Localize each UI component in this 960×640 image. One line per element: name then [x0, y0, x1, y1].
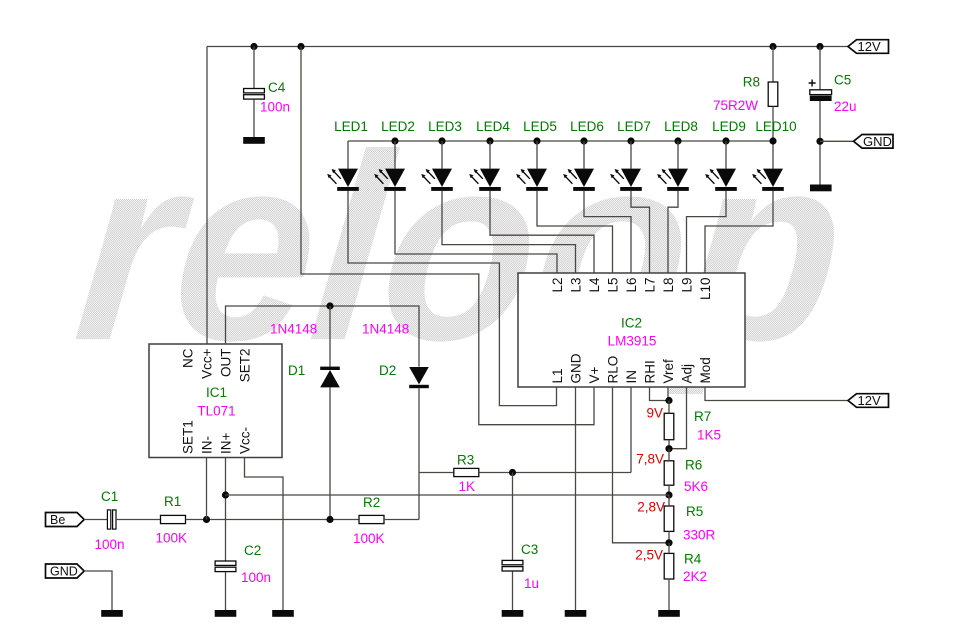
- wire IC2 Mod pin to 12V flag: [705, 387, 848, 401]
- wire IC2 RHI pin to 9V node: [650, 387, 670, 401]
- svg-text:L9: L9: [680, 278, 695, 293]
- node IN- / R1 / R2: [203, 516, 210, 523]
- node D1 anode on IN- net: [326, 516, 333, 523]
- svg-text:GND: GND: [569, 353, 584, 383]
- svg-text:L4: L4: [587, 277, 602, 293]
- svg-text:R5: R5: [686, 504, 703, 519]
- svg-text:IN: IN: [624, 370, 639, 384]
- svg-text:LED10: LED10: [755, 119, 796, 134]
- wire LED7 cathode to IC2 pin L7: [631, 191, 650, 273]
- wire IC2 Adj pin to 7.8V node: [669, 387, 687, 449]
- wire IC2 Vref pin to 9V node: [667, 387, 669, 401]
- wire IC1 Vcc- pin to ground: [245, 458, 284, 611]
- wire R6 to 2.8V node: [668, 485, 670, 495]
- wire GND net to GND flag: [820, 140, 854, 142]
- wire IC2 GND pin to ground: [575, 387, 577, 610]
- wire R1 to R2 (IN- net): [186, 519, 360, 521]
- LED LED9: [705, 169, 737, 191]
- svg-text:100K: 100K: [156, 531, 188, 546]
- wire IC2 RLO pin to 2.5V node: [613, 387, 670, 543]
- svg-text:LM3915: LM3915: [608, 334, 657, 349]
- wire LED anode rail: [348, 140, 773, 142]
- wire 9V node to R7: [668, 401, 670, 414]
- svg-text:R1: R1: [164, 494, 181, 509]
- resistor R5: [664, 506, 674, 531]
- svg-text:7,8V: 7,8V: [636, 452, 664, 467]
- node C5 / GND net: [816, 138, 823, 145]
- svg-text:D1: D1: [288, 363, 305, 378]
- wire anode rail to LED9: [725, 141, 727, 169]
- node IN+ / 2.8V link: [222, 491, 229, 498]
- resistor R1: [161, 515, 186, 523]
- flag GND input: [46, 564, 85, 579]
- svg-text:5K6: 5K6: [684, 479, 708, 494]
- wire IC2 V+ pin to 12V rail: [301, 47, 594, 425]
- svg-text:R7: R7: [694, 409, 711, 424]
- svg-text:LED9: LED9: [712, 119, 746, 134]
- LED LED5: [516, 169, 548, 191]
- ground input GND: [101, 610, 123, 617]
- svg-text:IN-: IN-: [200, 436, 215, 454]
- wire LED10 cathode to IC2 pin L10: [705, 191, 773, 273]
- wire C4 to ground: [253, 100, 255, 138]
- wire GND flag to ground: [84, 571, 112, 610]
- svg-text:LED4: LED4: [476, 119, 510, 134]
- wire IN- pin down to node: [206, 458, 208, 520]
- wire anode rail to LED10: [772, 141, 774, 169]
- wire 12V rail to C4: [253, 47, 255, 89]
- node C5 / 12V rail: [816, 43, 823, 50]
- svg-text:2,8V: 2,8V: [637, 500, 665, 515]
- node LED9 anode: [722, 137, 729, 144]
- diode D1 1N4148: [320, 367, 340, 388]
- node LED10 / R8: [769, 137, 776, 144]
- wire IC1 OUT to D1/D2 cathodes: [226, 306, 420, 367]
- svg-text:1K: 1K: [459, 479, 476, 494]
- wire LED8 cathode to IC2 pin L8: [668, 191, 678, 273]
- wire OUT node down to D1: [329, 306, 331, 367]
- wire R8 to LED rail: [772, 106, 774, 141]
- node LED3 anode: [438, 137, 445, 144]
- resistor R4: [664, 553, 674, 579]
- svg-text:C1: C1: [101, 489, 118, 504]
- wire C3 to ground: [512, 571, 514, 610]
- svg-text:L6: L6: [624, 278, 639, 293]
- svg-text:L3: L3: [569, 278, 584, 293]
- svg-text:L10: L10: [698, 278, 713, 301]
- LED LED2: [374, 169, 406, 191]
- svg-text:SET2: SET2: [238, 349, 253, 383]
- resistor R2: [359, 515, 384, 523]
- svg-text:OUT: OUT: [219, 349, 234, 378]
- node LED2 anode: [391, 137, 398, 144]
- ground Vcc-: [272, 610, 294, 617]
- svg-text:R3: R3: [457, 453, 474, 468]
- diode D2 1N4148: [409, 367, 429, 388]
- wire 7.8V node to R6: [668, 449, 670, 461]
- svg-text:100n: 100n: [95, 537, 125, 552]
- op-amp/IC U2 box LM3915: [518, 273, 745, 387]
- wire anode rail to LED7: [630, 141, 632, 169]
- svg-text:Mod: Mod: [698, 357, 713, 383]
- wire Be flag to C1: [84, 519, 107, 521]
- svg-text:9V: 9V: [646, 406, 663, 421]
- wire C2 to ground: [225, 572, 227, 610]
- LED LED8: [657, 169, 689, 191]
- node 2.5V (R5/R4/RLO): [665, 539, 672, 546]
- wire R3 net down to R2: [418, 473, 420, 520]
- ground C2: [215, 610, 237, 617]
- flag 12V top: [848, 39, 889, 54]
- op-amp IC1 box TL071: [149, 344, 282, 458]
- wire R3 to IC2 IN pin: [479, 472, 631, 474]
- svg-text:RLO: RLO: [606, 356, 621, 384]
- wire C1 to R1: [116, 519, 161, 521]
- wire D1 anode to IN- net: [329, 387, 331, 519]
- wire anode rail to LED6: [583, 141, 585, 169]
- node R8 / 12V rail: [769, 43, 776, 50]
- svg-text:L7: L7: [643, 278, 658, 293]
- svg-text:R4: R4: [684, 552, 702, 567]
- node C4 / 12V rail: [250, 43, 257, 50]
- ground IC2 GND: [565, 610, 587, 617]
- svg-text:1N4148: 1N4148: [270, 322, 317, 337]
- svg-text:1N4148: 1N4148: [362, 322, 409, 337]
- node 9V (RHI/Vref/R7): [665, 397, 672, 404]
- LED LED1: [327, 169, 359, 191]
- svg-text:LED7: LED7: [617, 119, 651, 134]
- svg-text:100n: 100n: [241, 570, 271, 585]
- flag Be input: [46, 513, 85, 528]
- svg-text:C2: C2: [244, 543, 261, 558]
- svg-text:1K5: 1K5: [697, 428, 721, 443]
- svg-text:LED2: LED2: [381, 119, 415, 134]
- node LED8 anode: [674, 137, 681, 144]
- svg-text:L8: L8: [661, 278, 676, 293]
- LED LED3: [421, 169, 453, 191]
- svg-text:L5: L5: [606, 278, 621, 293]
- svg-text:L1: L1: [550, 368, 565, 383]
- svg-text:75R2W: 75R2W: [713, 98, 758, 113]
- wire LED1 cathode to IC2 pin L1: [348, 191, 557, 406]
- svg-text:LED8: LED8: [664, 119, 698, 134]
- ground C4: [243, 137, 265, 144]
- svg-text:C4: C4: [268, 80, 286, 95]
- wire 12V rail to R8: [772, 47, 774, 83]
- capacitor C2: [215, 561, 236, 572]
- svg-text:2,5V: 2,5V: [635, 548, 663, 563]
- svg-text:GND: GND: [50, 565, 78, 579]
- svg-text:IC2: IC2: [621, 316, 642, 331]
- svg-text:1u: 1u: [524, 576, 539, 591]
- svg-text:RHI: RHI: [643, 360, 658, 383]
- svg-text:Be: Be: [50, 513, 65, 527]
- svg-text:12V: 12V: [858, 393, 881, 408]
- wire IC1 IN+ pin down to C2: [225, 458, 227, 562]
- ground R4: [658, 610, 680, 617]
- wire R5 to 2.5V node: [668, 531, 670, 542]
- wire LED6 cathode to IC2 pin L6: [584, 191, 631, 273]
- flag 12V middle: [848, 393, 889, 408]
- svg-text:NC: NC: [181, 348, 196, 368]
- svg-text:LED3: LED3: [428, 119, 462, 134]
- wire LED4 cathode to IC2 pin L4: [490, 191, 594, 273]
- wire R4 to ground: [668, 579, 670, 610]
- svg-text:R2: R2: [363, 495, 380, 510]
- svg-text:100K: 100K: [353, 531, 385, 546]
- LED LED7: [610, 169, 642, 191]
- svg-text:Vref: Vref: [661, 359, 676, 384]
- node OUT / D1 cathode: [326, 302, 333, 309]
- wire anode rail to LED8: [677, 141, 679, 169]
- flag GND right: [854, 134, 894, 149]
- svg-text:C3: C3: [521, 542, 538, 557]
- capacitor C1: [107, 510, 116, 529]
- node LED4 anode: [486, 137, 493, 144]
- svg-text:330R: 330R: [683, 528, 716, 543]
- wire anode rail to LED4: [489, 141, 491, 169]
- resistor R3: [454, 468, 479, 476]
- wire LED2 cathode to IC2 pin L2: [395, 191, 557, 273]
- ground C5: [810, 185, 832, 192]
- svg-text:IC1: IC1: [206, 385, 227, 400]
- capacitor C5 (electrolytic): [809, 80, 832, 102]
- wire 12V top rail: [207, 46, 848, 48]
- svg-text:Vcc-: Vcc-: [238, 427, 253, 454]
- capacitor C4: [244, 89, 265, 100]
- node LED5 anode: [533, 137, 540, 144]
- svg-text:D2: D2: [379, 363, 396, 378]
- LED LED4: [469, 169, 501, 191]
- svg-text:SET1: SET1: [181, 420, 196, 454]
- wire IC2 IN pin down to R3 net: [630, 387, 632, 473]
- resistor R6: [664, 461, 674, 485]
- resistor R8: [768, 82, 778, 106]
- node 2.8V (R6/R5/IN+): [665, 491, 672, 498]
- wire LED3 cathode to IC2 pin L3: [442, 191, 576, 273]
- svg-text:R8: R8: [743, 75, 760, 90]
- LED LED10: [752, 169, 784, 191]
- svg-text:LED6: LED6: [570, 119, 604, 134]
- ground C3: [502, 610, 524, 617]
- svg-text:LED1: LED1: [334, 119, 368, 134]
- svg-text:IN+: IN+: [219, 433, 234, 455]
- resistor R7: [664, 413, 674, 439]
- LED LED6: [563, 169, 595, 191]
- node 7.8V (R7/R6/Adj): [665, 445, 672, 452]
- svg-text:L2: L2: [550, 278, 565, 293]
- node R3 / C3: [509, 469, 516, 476]
- wire IN+ node to 2.8V node: [226, 494, 670, 496]
- wire R7 to 7.8V node: [668, 440, 670, 449]
- wire D2 cathode to R3 net: [418, 388, 420, 472]
- wire R3 node down to C3: [512, 473, 514, 561]
- wire 2.8V node to R5: [668, 495, 670, 506]
- svg-text:Vcc+: Vcc+: [200, 348, 215, 379]
- wire D2 anode node to R3: [419, 472, 454, 474]
- wire anode rail to LED5: [536, 141, 538, 169]
- svg-text:Adj: Adj: [680, 364, 695, 384]
- wire 12V rail to IC1 Vcc+: [206, 47, 208, 345]
- svg-text:22u: 22u: [834, 99, 857, 114]
- svg-text:V+: V+: [587, 366, 602, 383]
- wire R2 to D2 anode: [384, 519, 419, 521]
- node LED6 anode: [580, 137, 587, 144]
- svg-text:100n: 100n: [260, 100, 290, 115]
- svg-text:GND: GND: [863, 134, 892, 149]
- wire anode rail to LED2: [394, 141, 396, 169]
- svg-text:C5: C5: [834, 73, 851, 88]
- wire anode rail to LED1: [347, 141, 349, 169]
- svg-text:TL071: TL071: [197, 404, 235, 419]
- wire LED5 cathode to IC2 pin L5: [537, 191, 613, 273]
- node V+ branch / 12V rail: [297, 43, 304, 50]
- svg-text:LED5: LED5: [523, 119, 557, 134]
- capacitor C3: [502, 560, 523, 571]
- svg-text:12V: 12V: [858, 39, 881, 54]
- wire C5 to ground: [819, 101, 821, 185]
- svg-text:2K2: 2K2: [683, 569, 707, 584]
- wire anode rail to LED3: [441, 141, 443, 169]
- wire 12V rail to C5: [819, 47, 821, 91]
- svg-text:R6: R6: [685, 458, 702, 473]
- wire LED9 cathode to IC2 pin L9: [687, 191, 727, 273]
- node LED7 anode: [627, 137, 634, 144]
- wire 2.5V node to R4: [668, 543, 670, 554]
